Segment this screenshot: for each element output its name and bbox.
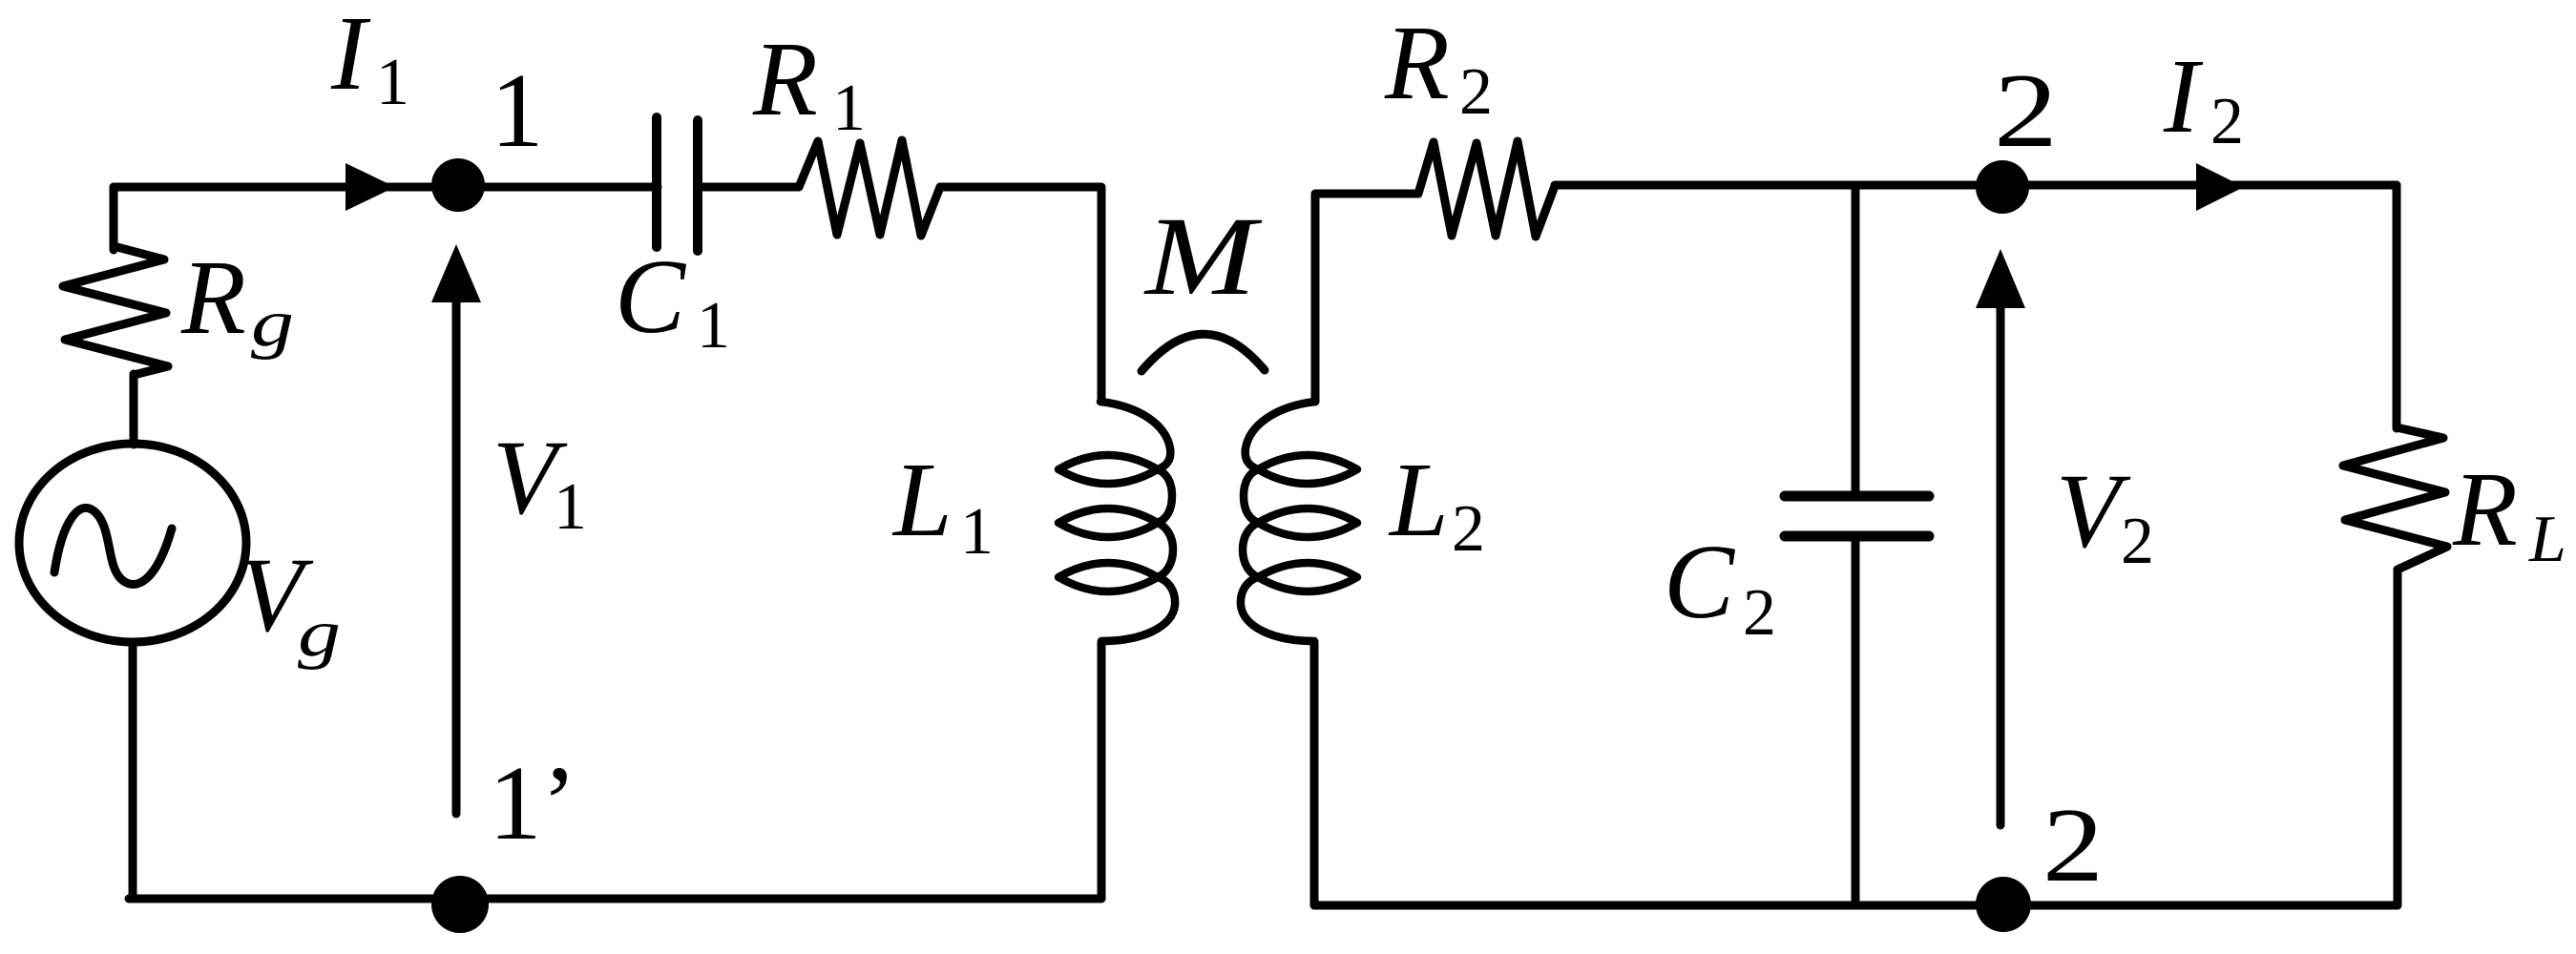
voltage arrow V1 head xyxy=(431,244,481,302)
svg-text:L: L xyxy=(1388,442,1449,559)
inductor L1 coil xyxy=(1058,402,1175,641)
wire R1 to L1 top xyxy=(940,187,1101,402)
wire top-right corner down to RL xyxy=(2393,185,2401,428)
svg-text:C: C xyxy=(1664,524,1736,641)
source Vg circle xyxy=(19,444,246,642)
wire C1 to R1 xyxy=(703,183,799,192)
svg-text:I: I xyxy=(2163,38,2204,156)
svg-text:L: L xyxy=(2528,503,2566,576)
svg-text:1: 1 xyxy=(554,470,587,544)
node 2 dot (bottom) xyxy=(1976,877,2031,932)
capacitor C2 bottom stem xyxy=(1852,536,1860,905)
node 2 dot (top) xyxy=(1976,160,2029,214)
voltage arrow V2 head xyxy=(1976,249,2025,308)
svg-text:L: L xyxy=(891,442,953,559)
svg-text:M: M xyxy=(1143,194,1263,319)
svg-text:2: 2 xyxy=(1743,576,1776,650)
svg-text:2: 2 xyxy=(2042,787,2104,904)
resistor R2 xyxy=(1418,141,1555,237)
current arrow I1 xyxy=(346,163,395,211)
svg-text:1’: 1’ xyxy=(489,745,576,862)
svg-text:g: g xyxy=(251,287,294,361)
current arrow I2 xyxy=(2196,163,2244,211)
resistor Rg xyxy=(63,246,168,375)
wire bottom-left rail xyxy=(129,895,1101,903)
wire bottom-right rail xyxy=(1314,902,2398,910)
svg-text:g: g xyxy=(298,597,341,671)
inductor L2 coil xyxy=(1241,402,1357,641)
capacitor C2 top stem xyxy=(1852,185,1860,495)
svg-text:1: 1 xyxy=(491,52,544,170)
svg-text:R: R xyxy=(180,239,246,357)
mutual inductance arc M xyxy=(1141,334,1265,371)
wire L2 top to R2 xyxy=(1315,194,1418,402)
svg-text:2: 2 xyxy=(2210,85,2244,158)
svg-text:1: 1 xyxy=(960,495,994,569)
capacitor C1 plates xyxy=(652,117,661,247)
wire RL to bottom rail xyxy=(2394,570,2402,905)
svg-text:2: 2 xyxy=(1452,492,1485,566)
wire L2 bottom to rail xyxy=(1310,642,1319,905)
wire source to bottom rail xyxy=(129,645,137,899)
svg-text:R: R xyxy=(1384,5,1450,122)
wire L1 bottom to rail xyxy=(1098,642,1106,899)
svg-text:I: I xyxy=(330,0,371,113)
svg-text:2: 2 xyxy=(1459,55,1493,129)
capacitor C2 plates xyxy=(1785,496,1929,536)
source Vg sine wave xyxy=(54,508,172,584)
resistor R1 xyxy=(799,140,940,236)
voltage arrow V2 shaft xyxy=(1997,308,2005,825)
svg-text:R: R xyxy=(2452,451,2518,569)
wire Rg to source xyxy=(130,374,138,445)
wire top-left horizontal (source to node 1 to C1) xyxy=(114,183,658,192)
svg-text:R: R xyxy=(752,21,818,138)
resistor RL xyxy=(2343,427,2447,570)
node 1 dot xyxy=(431,158,485,212)
voltage arrow V1 shaft xyxy=(452,302,461,814)
node 1' junction dot xyxy=(431,876,489,933)
svg-text:1: 1 xyxy=(376,46,409,119)
svg-text:1: 1 xyxy=(697,289,730,363)
svg-text:2: 2 xyxy=(1994,52,2058,170)
wire left vertical drop from top-left corner xyxy=(110,187,118,250)
wire R2 to top-right corner xyxy=(1555,181,2397,190)
svg-text:2: 2 xyxy=(2121,505,2154,578)
svg-text:1: 1 xyxy=(832,72,866,145)
svg-text:C: C xyxy=(615,238,687,356)
